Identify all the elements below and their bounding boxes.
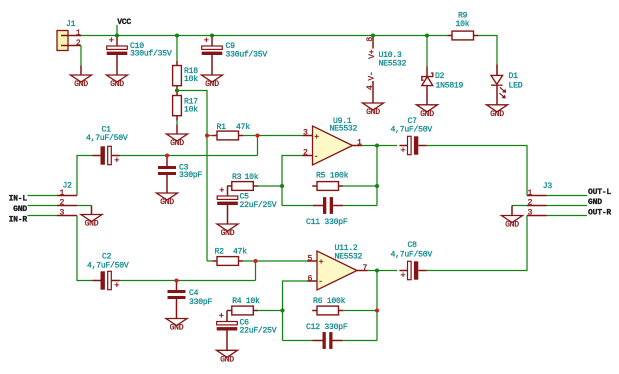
ground under C5	[217, 224, 238, 238]
ground under C9	[202, 75, 223, 89]
svg-text:330uf/35V: 330uf/35V	[226, 50, 268, 59]
wire C1 to node A	[120, 155, 258, 157]
wire bias to R1	[207, 135, 212, 137]
wire C3 top	[166, 156, 168, 167]
wire C11 left	[282, 205, 313, 207]
wire R5 right	[343, 185, 377, 187]
wire GND in	[28, 205, 58, 207]
label R3 10k	[232, 173, 259, 182]
label C5	[240, 193, 277, 210]
wire C11 right	[343, 205, 377, 207]
label U10.3	[379, 51, 407, 69]
label C9	[226, 42, 268, 59]
wire output feedback vertical U9	[376, 146, 378, 206]
capacitor C5	[217, 186, 238, 205]
wire R6 right	[343, 310, 377, 312]
resistor R9	[447, 31, 478, 40]
svg-text:10k: 10k	[456, 20, 470, 29]
capacitor C2	[93, 271, 120, 291]
svg-text:+: +	[314, 133, 319, 142]
ground under C3	[157, 193, 178, 207]
resistor R6	[312, 306, 343, 315]
svg-text:GND: GND	[505, 221, 519, 230]
svg-text:10k: 10k	[184, 75, 198, 84]
op-amp U9.1 pin stubs	[303, 136, 363, 156]
capacitor C8	[400, 261, 427, 281]
svg-text:47k: 47k	[233, 248, 247, 257]
resistor R4	[227, 306, 258, 315]
svg-text:V+: V+	[368, 49, 377, 59]
wire C2 node vertical	[255, 261, 257, 281]
wire stub ground C4	[176, 299, 178, 319]
svg-text:C4: C4	[189, 289, 199, 298]
wire R4 bend to C6	[226, 311, 228, 322]
wire C8 to J3 pin3	[427, 216, 528, 271]
svg-text:+: +	[114, 156, 119, 166]
wire C4 top	[176, 281, 178, 291]
svg-text:-: -	[314, 153, 319, 162]
svg-text:GND: GND	[588, 198, 602, 207]
svg-text:R3: R3	[232, 173, 242, 182]
label D1	[509, 72, 523, 90]
wire C12 right	[343, 340, 378, 342]
resistor R18	[173, 61, 182, 91]
svg-text:+: +	[400, 146, 405, 156]
wire C7 to J3 pin1	[427, 146, 528, 196]
wire OUT-R	[547, 215, 588, 217]
wire R4 to junction	[258, 310, 282, 312]
label C10	[130, 42, 172, 59]
svg-text:C2: C2	[102, 252, 112, 261]
ground under C10	[107, 75, 128, 89]
wire stub ground C6	[226, 331, 228, 351]
svg-text:NE5532: NE5532	[335, 253, 363, 262]
svg-text:10k: 10k	[184, 105, 198, 114]
capacitor C7	[400, 136, 427, 156]
svg-text:R2: R2	[215, 248, 225, 257]
svg-text:3: 3	[303, 129, 308, 138]
op-amp U11.2	[317, 251, 357, 290]
label C1	[86, 126, 128, 144]
svg-text:1: 1	[76, 29, 81, 38]
svg-text:1: 1	[60, 189, 65, 198]
svg-text:330pF: 330pF	[189, 298, 212, 307]
wire stub ground C5	[227, 205, 229, 224]
svg-text:GND: GND	[420, 110, 434, 119]
wire stub ground J2	[91, 206, 93, 215]
capacitor C10	[107, 36, 128, 55]
label R2 47k	[215, 248, 248, 257]
svg-text:D1: D1	[509, 72, 519, 81]
wire R3 bend to C5	[227, 186, 229, 196]
diode D2	[422, 67, 433, 86]
wire node B to pin 5	[256, 260, 308, 262]
svg-text:GND: GND	[221, 229, 235, 238]
label R9	[456, 12, 470, 29]
svg-text:5: 5	[308, 254, 313, 263]
wire R1 to node A	[243, 135, 257, 137]
wire IN-R	[28, 215, 58, 217]
wire stub ground J1	[80, 66, 82, 76]
label C2	[87, 252, 129, 270]
wire rail to D1	[496, 65, 498, 76]
svg-text:330uf/35V: 330uf/35V	[130, 50, 172, 59]
connector J3	[527, 196, 547, 216]
svg-text:4,7uF/50V: 4,7uF/50V	[87, 262, 129, 271]
svg-text:J1: J1	[66, 20, 76, 29]
wire VCC to rail	[116, 25, 118, 36]
svg-text:2: 2	[303, 149, 308, 158]
wire pin6 to feedback	[283, 281, 308, 341]
label U9.1	[330, 117, 358, 133]
svg-text:+: +	[219, 186, 224, 196]
wire pin1 to C7	[362, 145, 397, 147]
svg-text:GND: GND	[490, 110, 504, 119]
wire bias to R2	[207, 260, 212, 262]
svg-text:2: 2	[60, 199, 65, 208]
wire J3 pin2 to ground	[512, 205, 527, 207]
wire stub ground D1	[496, 85, 498, 105]
svg-text:GND: GND	[205, 80, 219, 89]
svg-text:GND: GND	[170, 324, 184, 333]
ground under J1	[71, 75, 92, 89]
svg-text:C11 330pF: C11 330pF	[306, 218, 348, 227]
op-amp U10.3 power pins	[366, 36, 377, 104]
ground under U10.3	[363, 103, 384, 117]
wire C2 to R2 node	[120, 280, 256, 282]
wire J1 pin2 to ground	[80, 46, 82, 66]
label C3	[179, 163, 202, 180]
label R18	[184, 67, 198, 84]
svg-text:C8: C8	[408, 241, 418, 250]
ground under J3	[502, 216, 523, 230]
svg-text:C12 330pF: C12 330pF	[306, 323, 348, 332]
wire OUT-L	[547, 195, 588, 197]
capacitor C4	[168, 290, 186, 299]
svg-text:1N5819: 1N5819	[436, 81, 464, 90]
svg-text:3: 3	[60, 209, 65, 218]
wire J2 pin1 to C1	[77, 156, 93, 196]
ground under D1	[487, 105, 508, 119]
svg-text:NE5532: NE5532	[379, 60, 407, 69]
resistor R1	[212, 131, 243, 140]
label C8	[391, 241, 433, 260]
wire node A vertical	[257, 136, 259, 156]
wire output feedback vertical U11	[376, 271, 378, 341]
svg-text:OUT-L: OUT-L	[588, 188, 611, 197]
label R17	[184, 98, 198, 115]
svg-text:D2: D2	[435, 72, 445, 81]
resistor R5	[312, 182, 343, 191]
wire J2 pin2 to ground	[77, 205, 92, 207]
wire bias to R2	[177, 91, 207, 262]
svg-text:47k: 47k	[236, 123, 250, 132]
svg-text:3: 3	[528, 209, 533, 218]
label U11.2	[335, 244, 363, 262]
ground under C6	[217, 350, 238, 364]
wire stub ground C3	[166, 175, 168, 193]
capacitor C9	[202, 36, 223, 55]
svg-text:R6 100k: R6 100k	[313, 297, 346, 306]
node rail junctions	[0, 0, 1, 1]
wire C12 left	[283, 340, 313, 342]
svg-text:10k: 10k	[246, 297, 260, 306]
svg-text:GND: GND	[160, 198, 174, 207]
resistor R3	[227, 182, 258, 191]
svg-text:GND: GND	[220, 356, 234, 365]
svg-text:2: 2	[76, 39, 81, 48]
wire rail right of R9	[478, 36, 498, 65]
wire pin2 to feedback	[282, 156, 303, 206]
svg-text:GND: GND	[110, 80, 124, 89]
connector J1	[57, 31, 81, 51]
svg-text:GND: GND	[366, 108, 380, 117]
ground under D2	[417, 105, 438, 119]
power flag VCC	[117, 18, 131, 27]
svg-text:4,7uF/50V: 4,7uF/50V	[391, 125, 433, 134]
connector J2	[57, 196, 77, 216]
svg-text:4,7uF/50V: 4,7uF/50V	[391, 250, 433, 259]
wire R2 to node B	[243, 260, 255, 262]
svg-text:LED: LED	[509, 81, 523, 90]
svg-text:-: -	[318, 278, 323, 287]
wire R17 to ground	[176, 121, 178, 125]
svg-text:+: +	[319, 258, 324, 267]
wire node A to pin 3	[258, 135, 303, 137]
resistor R2	[212, 257, 243, 266]
wire rail to D2	[426, 36, 428, 67]
wire GND out	[547, 205, 588, 207]
wire J2 pin3 to C2	[77, 216, 93, 281]
capacitor C10 pins	[116, 36, 118, 76]
svg-text:R4: R4	[232, 297, 242, 306]
svg-text:IN-L: IN-L	[9, 194, 28, 203]
svg-text:NE5532: NE5532	[330, 125, 358, 134]
svg-text:+: +	[109, 36, 114, 46]
svg-text:10k: 10k	[245, 173, 259, 182]
svg-text:U11.2: U11.2	[335, 244, 358, 253]
svg-text:1: 1	[357, 138, 362, 147]
label C6	[240, 318, 277, 335]
wire stub ground J3	[511, 206, 513, 216]
svg-text:GND: GND	[74, 80, 88, 89]
svg-text:R1: R1	[217, 123, 227, 132]
capacitor C9 pins	[211, 36, 213, 76]
svg-text:+: +	[219, 311, 224, 321]
ground under R17	[167, 134, 188, 148]
svg-text:22uF/25V: 22uF/25V	[240, 327, 277, 336]
svg-text:VCC: VCC	[117, 18, 131, 27]
svg-text:IN-R: IN-R	[9, 215, 28, 224]
capacitor C3	[158, 166, 176, 175]
resistor R17	[173, 91, 182, 121]
wire rail to R18	[176, 36, 178, 61]
svg-text:GND: GND	[170, 139, 184, 148]
svg-text:R5 100k: R5 100k	[316, 172, 349, 181]
svg-text:330pF: 330pF	[179, 171, 202, 180]
svg-text:+: +	[204, 36, 209, 46]
label R4 10k	[232, 297, 260, 306]
capacitor C12	[313, 332, 343, 349]
op-amp U9.1	[313, 126, 353, 165]
svg-text:6: 6	[308, 274, 313, 283]
svg-text:GND: GND	[13, 205, 27, 214]
LED D1	[491, 65, 506, 99]
svg-text:J3: J3	[543, 182, 553, 191]
capacitor C11	[313, 197, 343, 214]
svg-text:4,7uF/50V: 4,7uF/50V	[86, 134, 128, 143]
capacitor C1	[93, 146, 120, 166]
wire VCC rail	[81, 35, 447, 37]
svg-text:1: 1	[528, 189, 533, 198]
label C4	[189, 289, 212, 307]
svg-text:OUT-R: OUT-R	[588, 208, 611, 217]
wire IN-L	[28, 195, 58, 197]
junction dots overlay	[115, 33, 429, 312]
op-amp U11.2 pin stubs	[307, 261, 368, 281]
wire R3 to junction	[258, 185, 282, 187]
svg-text:2: 2	[528, 199, 533, 208]
capacitor C6	[217, 311, 238, 330]
svg-text:+: +	[400, 271, 405, 281]
ground under J2	[81, 215, 102, 229]
svg-text:22uF/25V: 22uF/25V	[240, 201, 277, 210]
wire stub ground D2	[426, 86, 428, 105]
ground under C4	[166, 319, 187, 333]
svg-text:GND: GND	[85, 220, 99, 229]
svg-text:7: 7	[363, 264, 368, 273]
svg-text:V-: V-	[368, 71, 377, 80]
svg-text:+: +	[114, 281, 119, 291]
label D2	[435, 72, 464, 91]
wire stub ground R17	[176, 125, 178, 135]
label C7	[391, 117, 433, 134]
label R1 47k	[217, 123, 251, 132]
wire pin7 to C8	[368, 270, 398, 272]
